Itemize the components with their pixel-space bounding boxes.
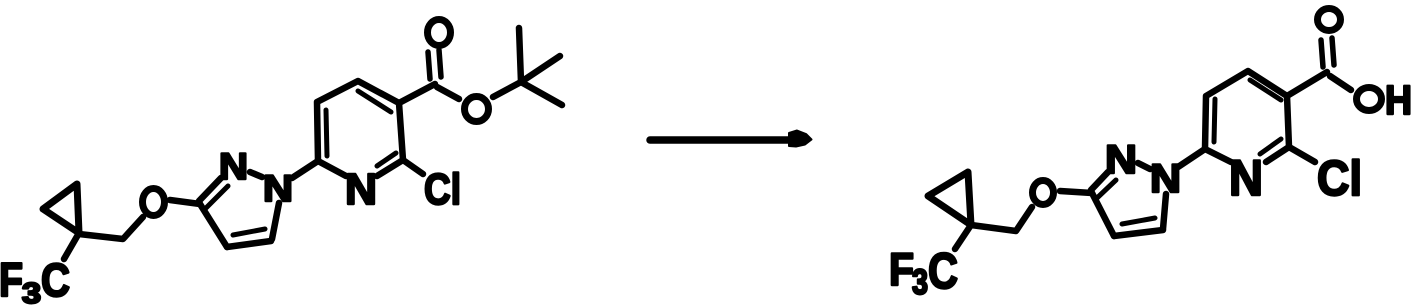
svg-text:3: 3 [912,263,928,302]
svg-text:N: N [1150,157,1181,201]
svg-text:F: F [0,253,23,306]
svg-text:N: N [263,168,293,209]
svg-text:Cl: Cl [424,165,461,214]
svg-text:F: F [889,244,914,295]
svg-text:3: 3 [22,278,41,308]
svg-text:N: N [1105,138,1137,182]
svg-text:N: N [219,146,248,187]
svg-text:Cl: Cl [1317,152,1362,206]
svg-text:C: C [41,254,70,306]
svg-text:N: N [345,165,377,214]
svg-text:H: H [1385,77,1411,123]
svg-text:C: C [928,243,958,299]
svg-text:N: N [1229,150,1263,206]
